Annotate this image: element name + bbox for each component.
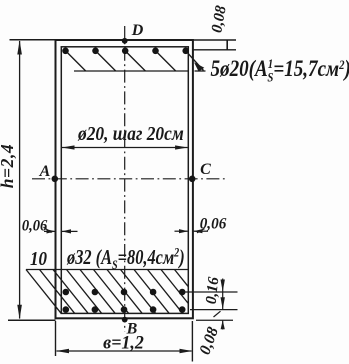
svg-text:0,16: 0,16	[203, 276, 223, 305]
svg-text:ø32 (AS=80,4см2): ø32 (AS=80,4см2)	[66, 245, 185, 272]
svg-text:5ø20(A1S=15,7см2): 5ø20(A1S=15,7см2)	[211, 55, 349, 84]
svg-text:C: C	[200, 161, 211, 178]
svg-text:A: A	[39, 163, 51, 180]
svg-text:0,06: 0,06	[200, 215, 227, 232]
svg-text:в=1,2: в=1,2	[103, 332, 144, 352]
svg-text:h=2,4: h=2,4	[0, 144, 17, 189]
svg-text:0,08: 0,08	[196, 325, 222, 357]
svg-text:0,08: 0,08	[208, 4, 229, 34]
svg-text:10: 10	[30, 248, 47, 271]
svg-text:0,06: 0,06	[22, 217, 48, 235]
svg-text:D: D	[131, 22, 144, 39]
svg-text:ø20, шаг 20см: ø20, шаг 20см	[77, 123, 184, 145]
